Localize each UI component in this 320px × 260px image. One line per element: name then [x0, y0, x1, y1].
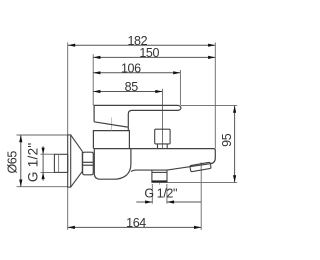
dimension diameter 65 (left, rotated) — [6, 135, 68, 187]
diverter knob — [155, 129, 170, 148]
bottom shower outlet pipe G1/2 — [152, 170, 167, 185]
lever handle — [94, 105, 181, 130]
spout outlet nozzle — [190, 162, 211, 172]
escutcheon cone — [71, 135, 83, 187]
svg-text:85: 85 — [125, 80, 139, 94]
dimension G 1/2 inch (left, rotated) — [26, 142, 55, 182]
dimension G 1/2 inch (bottom outlet) — [136, 184, 201, 204]
dimension 106 — [93, 61, 180, 105]
extension line left (wall plane / flange back) for 182 and 164 — [67, 43, 69, 230]
cartridge housing — [93, 131, 129, 149]
wall supply pipe G1/2 — [54, 154, 67, 172]
escutcheon flange back plate (diameter 65) — [68, 135, 71, 187]
connection hex nut — [83, 152, 94, 175]
mixer body outline — [94, 149, 131, 180]
svg-text:G 1/2": G 1/2" — [144, 186, 177, 200]
dimension 85 — [93, 80, 162, 149]
spout top and tip — [94, 149, 216, 164]
svg-text:164: 164 — [126, 216, 146, 230]
dimension 150 — [93, 46, 215, 105]
spout underside — [131, 164, 210, 172]
svg-text:Ø65: Ø65 — [6, 151, 20, 174]
svg-text:95: 95 — [220, 133, 234, 147]
cartridge centerline — [111, 118, 113, 131]
dimension 95 (vertical, right side) — [167, 106, 237, 183]
svg-text:G 1/2": G 1/2" — [26, 142, 41, 182]
svg-text:106: 106 — [121, 61, 141, 75]
dimension 164 (bottom) — [68, 162, 202, 230]
dimension 182 — [68, 34, 215, 148]
svg-text:150: 150 — [139, 46, 159, 60]
